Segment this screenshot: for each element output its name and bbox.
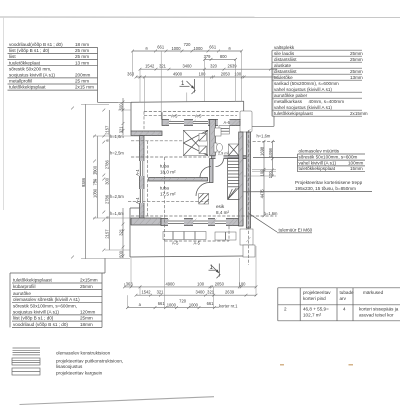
left chain 3: [108, 110, 110, 250]
svg-text:vahel soojustus (kivivill A s1: vahel soojustus (kivivill A s1): [274, 105, 332, 110]
exterior wall top: [162, 120, 240, 126]
dashed contour h=2,5m bottom: [128, 201, 210, 203]
svg-text:olemasolev konstruktsioon: olemasolev konstruktsioon: [56, 351, 111, 356]
svg-text:h=1,6m: h=1,6m: [110, 211, 124, 216]
dimension tick marks: [71, 50, 278, 309]
svg-text:projekteeritav puitkonstruktsi: projekteeritav puitkonstruktsioon,: [56, 359, 123, 364]
outline right top: [243, 101, 245, 111]
dimensions: [71, 42, 278, 309]
svg-text:13mm: 13mm: [350, 75, 363, 80]
svg-text:tuba: tuba: [160, 186, 169, 191]
WC sink: [215, 128, 222, 136]
svg-text:720: 720: [179, 299, 187, 304]
svg-text:olemasolev sõrestik (kivivill: olemasolev sõrestik (kivivill A s1): [13, 297, 80, 302]
svg-text:1542: 1542: [145, 64, 155, 69]
svg-text:A-4: A-4: [135, 169, 140, 176]
svg-text:661: 661: [207, 301, 215, 306]
svg-text:25mm: 25mm: [350, 57, 363, 62]
bottom dim row 3: [128, 307, 216, 309]
svg-text:arv: arv: [340, 296, 347, 301]
skylight sash 2: [199, 146, 207, 154]
svg-text:liist (võõp B s1 ; d0): liist (võõp B s1 ; d0): [13, 316, 54, 321]
interior wall WC left: [210, 120, 216, 156]
left extension lines: [81, 102, 140, 258]
bottom dim row 2: [136, 294, 256, 296]
svg-text:A-5: A-5: [194, 241, 201, 246]
top dim row C: [140, 68, 277, 70]
left chain 9386: [85, 104, 87, 259]
svg-text:100mm: 100mm: [348, 160, 363, 165]
exterior wall bottom: [161, 219, 243, 226]
paper bottom edge: [20, 397, 215, 405]
outline top: [131, 101, 244, 102]
legend swatch: projected timber construction: [12, 358, 40, 365]
top dim row B: [205, 58, 236, 60]
svg-text:321: 321: [118, 126, 123, 134]
svg-text:9386: 9386: [81, 177, 86, 187]
interior wall esik/tuba: [210, 159, 214, 183]
svg-text:1098: 1098: [268, 147, 273, 157]
exterior wall left: [140, 136, 145, 219]
svg-text:aluskate: aluskate: [274, 63, 292, 68]
legend swatch: existing construction: [13, 348, 41, 355]
svg-text:h=1,6m: h=1,6m: [257, 134, 271, 139]
svg-text:800: 800: [220, 54, 228, 59]
svg-text:metallkarkass 40mm, s=400m: metallkarkass 40mm, s=400mm: [274, 99, 344, 104]
svg-text:olemasolev müüritis: olemasolev müüritis: [299, 149, 340, 154]
dashed contour h=1,6m bottom: [131, 215, 277, 217]
svg-text:A-5: A-5: [195, 114, 202, 119]
svg-text:2050: 2050: [221, 71, 231, 76]
partition door arc: [200, 167, 211, 178]
svg-text:h=2,5m: h=2,5m: [110, 194, 124, 199]
top dim row D: [136, 76, 277, 78]
svg-text:15mm: 15mm: [350, 166, 363, 171]
svg-text:46,8 + 55,9=: 46,8 + 55,9=: [303, 307, 329, 312]
svg-text:25 mm: 25 mm: [75, 54, 89, 59]
svg-text:2,9 m²: 2,9 m²: [218, 151, 229, 155]
right chain 1: [263, 141, 265, 215]
top-left wall assembly table: [8, 42, 132, 102]
top dim row A: [133, 50, 242, 52]
svg-text:300: 300: [105, 177, 110, 185]
dashed roof edge top: [144, 111, 240, 113]
svg-text:soojustus kivivill (A s1): soojustus kivivill (A s1): [13, 309, 59, 314]
svg-text:aurutõke: aurutõke: [13, 291, 31, 296]
svg-text:25 mm: 25 mm: [75, 79, 89, 84]
svg-text:asuvad teisel kor: asuvad teisel kor: [359, 313, 394, 318]
small stain marks: [280, 364, 284, 366]
stairs: [228, 158, 240, 200]
outline bottom: [130, 256, 243, 257]
svg-text:distantsliist: distantsliist: [274, 57, 297, 62]
svg-text:projekteeritav: projekteeritav: [303, 290, 331, 295]
bottom extension lines: [125, 241, 256, 308]
window A-4 upper (gap): [139, 161, 144, 176]
svg-text:korteri sissepääs ja: korteri sissepääs ja: [359, 307, 399, 312]
svg-text:100: 100: [199, 71, 207, 76]
tuba 17.5 door arc: [196, 183, 210, 197]
svg-text:esik: esik: [216, 204, 225, 209]
chimney top right: [240, 111, 252, 132]
svg-text:a: a: [228, 46, 231, 51]
gable wall top-left: [131, 131, 162, 136]
svg-text:750: 750: [93, 178, 98, 186]
dormer outline bottom 2: [215, 232, 236, 240]
svg-text:1000: 1000: [193, 46, 203, 51]
window A-5 top 1: [169, 119, 184, 126]
svg-text:25mm: 25mm: [350, 51, 363, 56]
svg-text:2639: 2639: [225, 290, 235, 295]
svg-text:200mm: 200mm: [75, 73, 90, 78]
svg-text:sõrestik 50x200 mm,: sõrestik 50x200 mm,: [9, 66, 51, 71]
interior wall right of stairs: [239, 132, 243, 226]
paper top edge: [0, 16, 400, 18]
svg-text:liist (võõp B s1 ; d0): liist (võõp B s1 ; d0): [9, 48, 50, 53]
flue block: [199, 194, 209, 205]
svg-text:25mm: 25mm: [80, 284, 93, 289]
svg-text:sarikad (50x200mm), s=600mm: sarikad (50x200mm), s=600mm: [274, 81, 339, 86]
legend swatch: projected frame wall: [12, 368, 40, 375]
svg-text:a: a: [105, 216, 110, 219]
svg-text:h=2,5m: h=2,5m: [110, 150, 124, 155]
svg-text:661: 661: [157, 44, 165, 49]
svg-text:tuletõkkekipsplaat: tuletõkkekipsplaat: [299, 166, 336, 171]
porch bottom step: [243, 245, 255, 257]
svg-text:1542: 1542: [141, 290, 151, 295]
window A-5 top 2: [193, 119, 208, 126]
svg-text:aurutõkke paber: aurutõkke paber: [274, 93, 308, 98]
svg-text:2157: 2157: [105, 125, 110, 135]
WC toilet: [214, 143, 217, 152]
svg-text:2639: 2639: [227, 64, 237, 69]
svg-text:sile laudis: sile laudis: [274, 51, 295, 56]
legend: [12, 348, 123, 376]
paper left edge: [3, 17, 5, 210]
svg-text:tuletõkkekipsplaast: tuletõkkekipsplaast: [274, 111, 314, 116]
shower box: [229, 144, 239, 156]
svg-text:4475: 4475: [259, 189, 264, 199]
svg-text:4900: 4900: [165, 281, 175, 286]
svg-text:4900: 4900: [173, 71, 183, 76]
svg-text:17,5 m²: 17,5 m²: [160, 192, 176, 197]
svg-text:18 mm: 18 mm: [75, 42, 89, 47]
window A-5 bottom 1: [168, 218, 184, 226]
svg-text:tuba: tuba: [160, 164, 169, 169]
window bottom 3 gap: [215, 218, 226, 226]
svg-text:13 mm: 13 mm: [75, 60, 89, 65]
svg-text:a: a: [105, 139, 110, 142]
svg-text:tuuletõkkeplaat: tuuletõkkeplaat: [9, 60, 41, 65]
svg-text:3400: 3400: [182, 64, 192, 69]
svg-text:100: 100: [268, 171, 273, 179]
svg-text:379: 379: [204, 54, 212, 59]
gable wall bottom-left: [131, 218, 161, 225]
svg-text:320: 320: [210, 64, 218, 69]
left chain 2: [96, 136, 98, 218]
svg-text:h=1,6m: h=1,6m: [110, 134, 124, 139]
svg-text:2x15mm: 2x15mm: [80, 278, 98, 283]
svg-text:3400: 3400: [195, 290, 205, 295]
svg-text:metallprofiil: metallprofiil: [9, 79, 32, 84]
svg-text:661: 661: [209, 44, 217, 49]
svg-text:18,0 m²: 18,0 m²: [160, 170, 176, 175]
svg-text:distantsliist: distantsliist: [274, 69, 297, 74]
svg-text:vahel kivivill (A s1): vahel kivivill (A s1): [299, 160, 337, 165]
svg-text:1000: 1000: [171, 46, 181, 51]
svg-text:321: 321: [157, 290, 165, 295]
svg-text:A-6: A-6: [224, 120, 231, 125]
dormer outline bottom 1: [163, 232, 206, 240]
top-right roof assembly table: [251, 45, 368, 126]
skylight: [183, 130, 207, 155]
window A-5 bottom 2: [193, 218, 208, 226]
table right edge + leader to plan: [97, 47, 99, 102]
svg-text:märkused: märkused: [363, 290, 384, 295]
svg-text:A-4: A-4: [135, 197, 140, 204]
svg-text:2: 2: [284, 307, 287, 312]
svg-text:lisasoojustus: lisasoojustus: [56, 364, 83, 369]
svg-text:363: 363: [127, 71, 135, 76]
svg-text:195x230, 15 tõusu, b=850mm: 195x230, 15 tõusu, b=850mm: [295, 186, 356, 191]
svg-text:a: a: [145, 46, 148, 51]
svg-text:soojustus kivivill (A s1): soojustus kivivill (A s1): [9, 73, 55, 78]
svg-text:liist: liist: [9, 54, 16, 59]
svg-text:A-5: A-5: [172, 241, 179, 246]
svg-text:A-5: A-5: [171, 114, 178, 119]
svg-text:25 mm: 25 mm: [75, 48, 89, 53]
svg-text:1000: 1000: [189, 303, 199, 308]
outline left top: [130, 102, 132, 131]
svg-text:tubade: tubade: [340, 290, 354, 295]
svg-text:1698: 1698: [259, 146, 264, 156]
fire wall hidden edge: [247, 130, 249, 265]
svg-text:2157: 2157: [105, 229, 110, 239]
svg-text:h=1,6m: h=1,6m: [264, 211, 278, 216]
window A-6: [219, 126, 229, 134]
svg-text:25mm: 25mm: [350, 69, 363, 74]
right chain 2: [272, 141, 274, 176]
skylight sash 1: [199, 134, 207, 142]
svg-text:2x15 mm: 2x15 mm: [75, 85, 94, 90]
svg-text:321: 321: [159, 64, 167, 69]
top extension lines: [133, 51, 274, 120]
svg-text:kübarprofiil: kübarprofiil: [13, 284, 35, 289]
svg-text:4: 4: [343, 307, 346, 312]
svg-text:18mm: 18mm: [80, 322, 93, 327]
svg-text:102,7 m²: 102,7 m²: [303, 313, 322, 318]
right side notes: [244, 149, 373, 366]
interior wall WC bottom: [212, 156, 247, 159]
fire wall: [246, 132, 250, 228]
interior wall between rooms: [149, 178, 208, 182]
svg-text:120mm: 120mm: [80, 309, 95, 314]
svg-text:tuletõkkekipsplaast: tuletõkkekipsplaast: [13, 278, 53, 283]
svg-text:voodrilaud (võõp B s1 ; d0): voodrilaud (võõp B s1 ; d0): [13, 322, 68, 327]
svg-text:661: 661: [158, 301, 166, 306]
dashed contour h=2,5m top: [131, 156, 210, 158]
svg-text:sõrestik 50x100mm, s=600m: sõrestik 50x100mm, s=600m: [299, 155, 358, 160]
svg-text:voodrilaud(võõp B s1 ; d0): voodrilaud(võõp B s1 ; d0): [9, 42, 63, 47]
outline left bottom: [129, 208, 131, 257]
svg-text:2786: 2786: [105, 159, 110, 169]
svg-text:25mm: 25mm: [80, 316, 93, 321]
svg-text:projekteeritav kargsein: projekteeritav kargsein: [56, 371, 103, 376]
svg-text:valtsplekk: valtsplekk: [274, 45, 295, 50]
dashed lower rect: [147, 141, 149, 216]
porch top step: [240, 229, 253, 245]
wall hatching: [133, 120, 241, 226]
WC door arc: [216, 159, 224, 167]
svg-text:a: a: [139, 302, 142, 307]
svg-text:720: 720: [184, 42, 192, 47]
svg-text:2050: 2050: [215, 281, 225, 286]
svg-text:2786: 2786: [105, 194, 110, 204]
floor plan: [110, 101, 278, 265]
window A-6 gap: [218, 119, 230, 126]
svg-text:korteri pind: korteri pind: [303, 296, 326, 301]
svg-text:1000: 1000: [167, 303, 177, 308]
svg-text:tuletõkkekipsplaat: tuletõkkekipsplaat: [9, 85, 46, 90]
title block table: [278, 288, 400, 321]
svg-text:100: 100: [197, 281, 205, 286]
svg-text:vahel soojustus (kivivill A s1: vahel soojustus (kivivill A s1): [274, 87, 332, 92]
left chain 4: [122, 98, 124, 135]
svg-text:2x15mm: 2x15mm: [350, 111, 368, 116]
svg-text:tulemüür EI M60: tulemüür EI M60: [279, 228, 313, 233]
svg-text:korter nr.1: korter nr.1: [219, 303, 238, 308]
svg-text:8,4 m²: 8,4 m²: [216, 210, 229, 215]
bottom dim row 1: [125, 286, 257, 288]
window A-4 lower (gap): [139, 189, 144, 203]
svg-text:sõrestik 50x100mm, s=600mm,: sõrestik 50x100mm, s=600mm,: [13, 304, 77, 309]
svg-text:Projekteeritav korterisisene t: Projekteeritav korterisisene trepp: [295, 180, 363, 185]
svg-text:500: 500: [118, 103, 123, 111]
bottom-left wall assembly table: [10, 258, 105, 327]
svg-text:321: 321: [118, 228, 123, 236]
dashed contour h=1,6m top: [131, 140, 183, 142]
